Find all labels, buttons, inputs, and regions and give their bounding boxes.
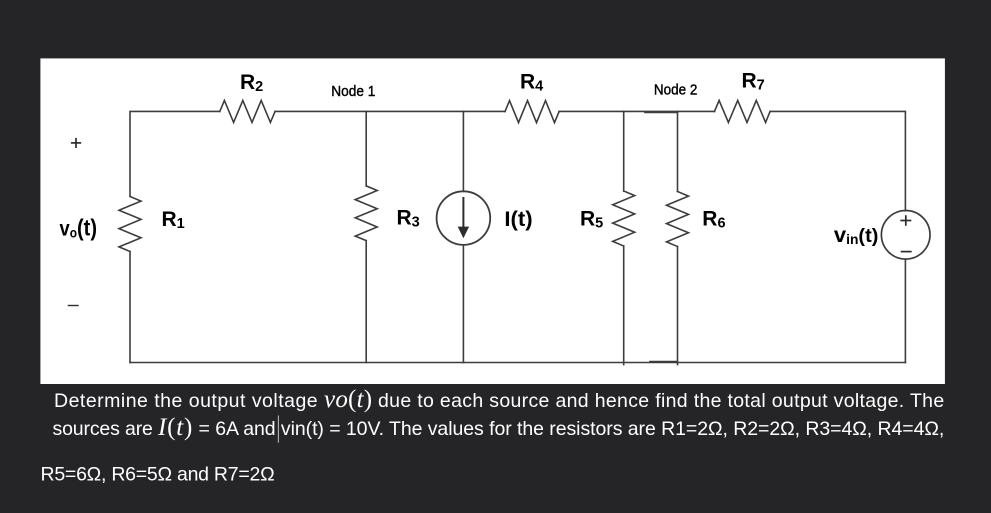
wire R5 branch top: [623, 111, 625, 191]
resistor R5: [613, 191, 635, 246]
node 1 branch wire top: [365, 111, 367, 185]
svg-text:vo(t): vo(t): [60, 214, 98, 240]
svg-text:Node 1: Node 1: [331, 83, 375, 100]
plus sign output: [71, 142, 81, 144]
resistor R6: [667, 192, 689, 247]
wire vin bottom: [904, 259, 906, 362]
svg-text:sources are I(t) = 6A and vin(: sources are I(t) = 6A and vin(t) = 10V. …: [53, 414, 945, 441]
white schematic canvas: [40, 58, 945, 384]
resistor R4: [505, 101, 559, 123]
wire R5 bottom: [623, 246, 625, 365]
svg-text:R5=6Ω, R6=5Ω and R7=2Ω: R5=6Ω, R6=5Ω and R7=2Ω: [41, 464, 275, 486]
current source arrow head: [458, 227, 469, 239]
bottom wire overlap segment: [650, 361, 678, 363]
resistor R3: [355, 186, 377, 241]
resistor R7: [715, 100, 771, 122]
minus sign output: [68, 305, 79, 307]
wire R6 bottom: [677, 247, 679, 365]
wire top middle (R2 to R4 through node 1): [275, 110, 505, 112]
wire R1 bottom: [129, 252, 131, 363]
problem text: [41, 386, 945, 486]
resistor R2: [220, 100, 275, 122]
wire current source bottom: [462, 245, 464, 363]
voltage source vin(t): [881, 211, 930, 260]
text caret: [277, 416, 279, 443]
vin minus sign: [901, 251, 912, 253]
bottom wire: [130, 362, 905, 364]
wire current source top: [462, 111, 464, 191]
current source arrow shaft: [462, 197, 464, 229]
vin plus sign: [900, 220, 911, 222]
svg-text:I(t): I(t): [504, 208, 532, 231]
svg-text:Determine the output voltage v: Determine the output voltage vo(t) due t…: [54, 386, 945, 413]
current source I(t): [437, 191, 491, 245]
wire overlap segment between node2 branches: [645, 111, 678, 113]
wire top left (R1 top corner to R2): [130, 111, 220, 196]
resistor R1: [119, 197, 141, 252]
wire top right of R4 to R7 (through node 2): [559, 110, 714, 112]
svg-text:Node 2: Node 2: [654, 82, 698, 99]
wire R6 branch top: [677, 111, 679, 191]
wire R3 bottom: [365, 241, 367, 363]
wire top right corner down to vin: [770, 111, 905, 210]
